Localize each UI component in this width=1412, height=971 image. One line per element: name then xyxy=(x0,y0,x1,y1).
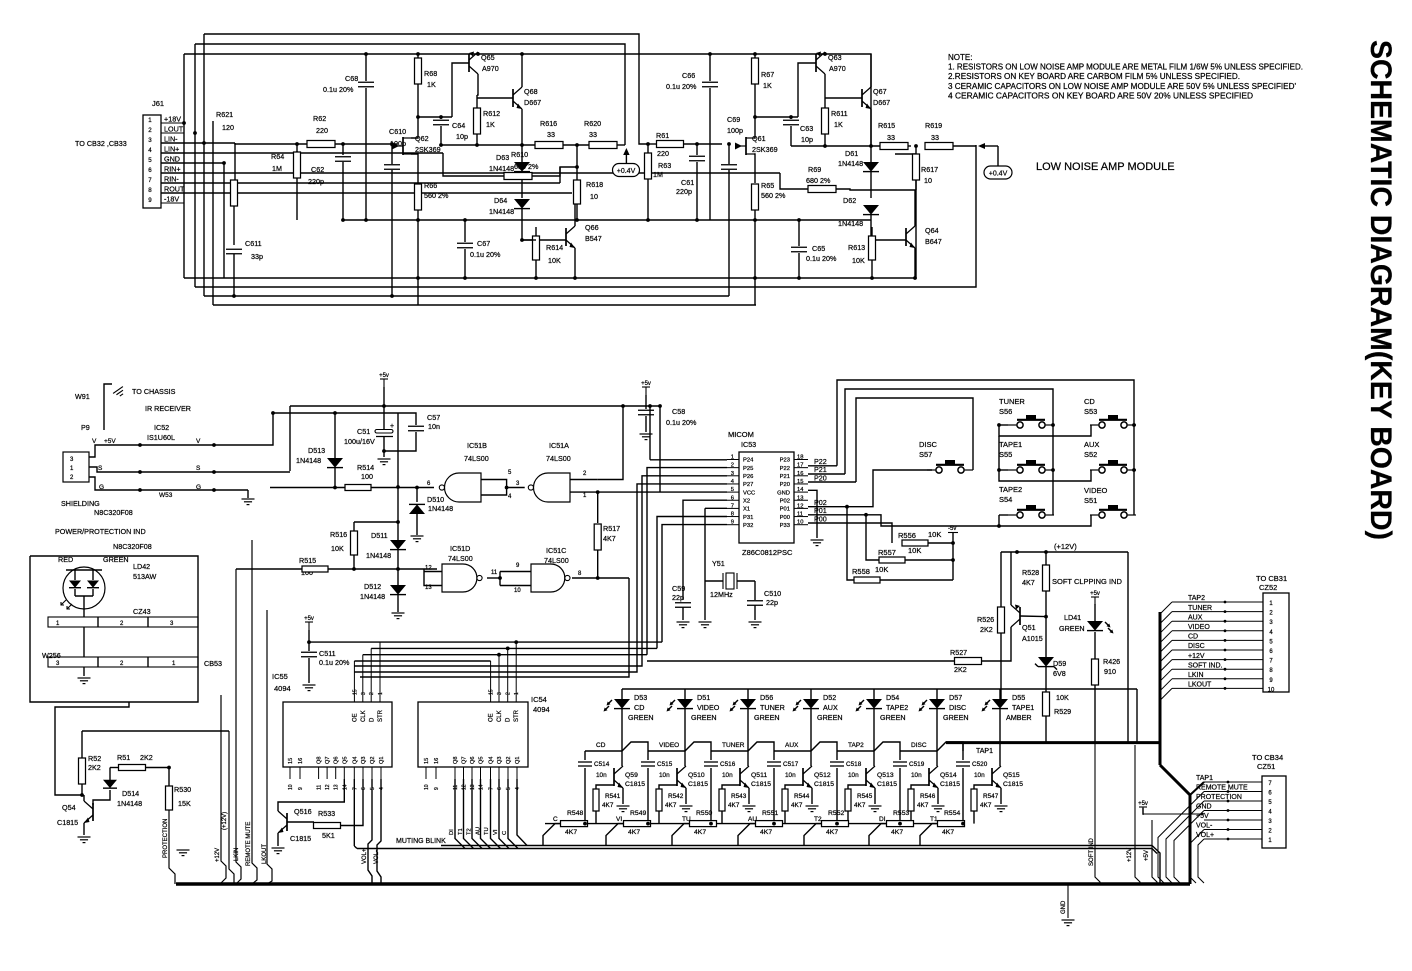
svg-text:10K: 10K xyxy=(548,256,561,265)
svg-text:+5v: +5v xyxy=(1138,801,1148,807)
svg-text:15K: 15K xyxy=(178,799,191,808)
svg-text:AUX: AUX xyxy=(785,742,799,749)
svg-text:VOL+: VOL+ xyxy=(362,848,368,864)
svg-text:1N4148: 1N4148 xyxy=(838,219,863,228)
wire Q510 emitter xyxy=(685,788,687,804)
transistor Q61 2SK369 xyxy=(745,137,747,155)
svg-text:0.1u 20%: 0.1u 20% xyxy=(470,250,501,259)
svg-text:4K7: 4K7 xyxy=(891,829,903,836)
svg-text:OE: OE xyxy=(352,713,358,722)
svg-text:LKIN: LKIN xyxy=(1188,672,1204,679)
wire GND drop xyxy=(223,163,225,278)
svg-text:TAP2: TAP2 xyxy=(1188,595,1205,602)
svg-text:680 2%: 680 2% xyxy=(806,176,831,185)
svg-text:S54: S54 xyxy=(999,495,1012,504)
svg-text:LOUT: LOUT xyxy=(164,125,184,134)
svg-text:+5v: +5v xyxy=(641,381,651,387)
svg-text:A1015: A1015 xyxy=(1022,634,1043,643)
svg-text:4K7: 4K7 xyxy=(728,802,740,809)
svg-text:10K: 10K xyxy=(1056,693,1069,702)
wire +5 row A xyxy=(290,405,660,407)
svg-text:D52: D52 xyxy=(823,693,836,702)
svg-text:P26: P26 xyxy=(743,474,753,480)
svg-text:Q4: Q4 xyxy=(352,757,358,764)
svg-text:C515: C515 xyxy=(657,761,673,768)
svg-text:3: 3 xyxy=(361,692,367,695)
svg-text:TO CB32 ,CB33: TO CB32 ,CB33 xyxy=(75,139,127,148)
svg-text:10K: 10K xyxy=(331,544,344,553)
svg-text:TAP2: TAP2 xyxy=(848,742,864,749)
svg-text:R515: R515 xyxy=(299,556,316,565)
svg-text:220: 220 xyxy=(657,149,669,158)
svg-text:SOFT IND: SOFT IND xyxy=(1089,837,1095,866)
svg-text:REMOTE MUTE: REMOTE MUTE xyxy=(246,822,252,866)
wire +5 col x398 xyxy=(397,413,399,522)
wire muting stubs xyxy=(543,824,561,846)
svg-text:16: 16 xyxy=(298,758,304,764)
wire G xyxy=(89,477,248,490)
ground Q59 xyxy=(617,805,630,807)
svg-text:Q65: Q65 xyxy=(481,53,495,62)
svg-text:10: 10 xyxy=(514,588,521,594)
oval +0.4V left xyxy=(613,164,640,177)
LED D51 GREEN xyxy=(684,689,686,700)
svg-text:33: 33 xyxy=(547,130,555,139)
svg-text:1: 1 xyxy=(148,117,152,124)
svg-text:R62: R62 xyxy=(313,114,326,123)
svg-text:74LS00: 74LS00 xyxy=(546,454,571,463)
wire right gnd subrail xyxy=(343,219,871,221)
connector J61 xyxy=(143,115,161,208)
svg-text:D55: D55 xyxy=(1012,693,1025,702)
wire left vertical 3 xyxy=(203,34,205,296)
svg-text:DISC: DISC xyxy=(911,742,927,749)
svg-text:33: 33 xyxy=(931,133,939,142)
svg-text:DISC: DISC xyxy=(949,703,966,712)
svg-text:Q6: Q6 xyxy=(334,757,340,764)
transistor Q66 B547 xyxy=(565,228,567,246)
ground C51 xyxy=(383,451,385,457)
capacitor C518 10n xyxy=(836,751,838,760)
wire LED D56 cathode xyxy=(747,709,749,766)
svg-text:R547: R547 xyxy=(983,793,999,800)
svg-text:IC51C: IC51C xyxy=(546,546,566,555)
svg-text:0.1u 20%: 0.1u 20% xyxy=(323,85,354,94)
svg-text:9: 9 xyxy=(434,787,440,790)
svg-text:74LS00: 74LS00 xyxy=(448,554,473,563)
svg-text:P33: P33 xyxy=(780,523,790,529)
svg-text:8: 8 xyxy=(148,187,152,194)
wire LED D54 cathode xyxy=(873,709,875,766)
transistor Q515 C1815 xyxy=(991,768,993,786)
svg-text:Q5: Q5 xyxy=(342,757,348,764)
svg-text:P20: P20 xyxy=(780,482,790,488)
wire VCC row xyxy=(598,491,727,493)
svg-text:GREEN: GREEN xyxy=(880,713,906,722)
svg-text:C59: C59 xyxy=(672,584,685,593)
svg-text:C1815: C1815 xyxy=(688,781,708,788)
svg-text:VOL+: VOL+ xyxy=(1196,832,1214,839)
svg-text:W256: W256 xyxy=(42,651,61,660)
wire Q514 emitter xyxy=(937,788,939,804)
svg-text:Q68: Q68 xyxy=(524,87,538,96)
svg-text:(+12V): (+12V) xyxy=(222,812,228,830)
svg-text:R553: R553 xyxy=(893,810,909,817)
wire top frame line 2 xyxy=(195,44,625,145)
svg-text:TAP1: TAP1 xyxy=(1196,775,1213,782)
wire Q65 collector xyxy=(477,74,478,95)
transistor Q67 D667 xyxy=(861,89,863,107)
wire Q62 source xyxy=(411,154,418,183)
svg-text:R545: R545 xyxy=(857,793,873,800)
svg-text:2.RESISTORS ON KEY BOARD ARE C: 2.RESISTORS ON KEY BOARD ARE CARBOM FILM… xyxy=(948,72,1240,81)
svg-text:R554: R554 xyxy=(944,810,960,817)
svg-text:RIN+: RIN+ xyxy=(164,165,181,174)
svg-text:B547: B547 xyxy=(585,234,602,243)
svg-text:11: 11 xyxy=(491,570,498,576)
transistor Q68 D667 xyxy=(512,89,514,107)
wire gnd rail bottom xyxy=(184,154,916,278)
svg-text:TO CB31: TO CB31 xyxy=(1256,574,1287,583)
wire switch loop 2 xyxy=(845,389,1053,515)
svg-text:AUX: AUX xyxy=(1084,440,1099,449)
svg-text:C63: C63 xyxy=(800,124,813,133)
svg-text:10: 10 xyxy=(424,784,430,790)
svg-text:10n: 10n xyxy=(785,772,796,779)
svg-text:1M: 1M xyxy=(272,164,282,173)
svg-text:+18V: +18V xyxy=(164,115,181,124)
svg-text:D51: D51 xyxy=(697,693,710,702)
svg-text:VIDEO: VIDEO xyxy=(1188,624,1210,631)
svg-text:5K1: 5K1 xyxy=(322,831,335,840)
svg-text:T2: T2 xyxy=(467,828,473,835)
svg-text:R620: R620 xyxy=(584,119,601,128)
svg-text:IC53: IC53 xyxy=(741,440,756,449)
svg-text:2: 2 xyxy=(148,127,152,134)
svg-text:2K2: 2K2 xyxy=(980,625,993,634)
transistor Q62 2SK369 xyxy=(402,137,404,155)
wire P24 row xyxy=(650,459,727,461)
svg-text:IC52: IC52 xyxy=(154,423,169,432)
wire +V rail xyxy=(184,54,871,146)
svg-text:+5v: +5v xyxy=(1090,591,1100,597)
resistor R546 4K7 xyxy=(908,789,914,811)
transistor Q51 A1015 xyxy=(1019,607,1021,625)
svg-text:(+12V): (+12V) xyxy=(1054,542,1077,551)
svg-text:D61: D61 xyxy=(845,149,858,158)
svg-text:C1815: C1815 xyxy=(751,781,771,788)
svg-text:13: 13 xyxy=(470,784,476,790)
svg-text:11: 11 xyxy=(453,785,459,790)
wire Q51 collector xyxy=(982,627,1011,661)
svg-text:P24: P24 xyxy=(743,458,754,464)
svg-text:CD: CD xyxy=(634,703,644,712)
svg-text:4K7: 4K7 xyxy=(1022,578,1035,587)
svg-text:R612: R612 xyxy=(483,109,500,118)
svg-text:R548: R548 xyxy=(567,810,583,817)
svg-text:10: 10 xyxy=(924,176,932,185)
svg-text:Q51: Q51 xyxy=(1022,623,1036,632)
svg-text:10K: 10K xyxy=(908,546,921,555)
svg-text:Q67: Q67 xyxy=(873,87,887,96)
capacitor C520 10n xyxy=(962,743,964,760)
svg-text:5: 5 xyxy=(506,787,512,790)
svg-text:910: 910 xyxy=(1104,667,1116,676)
svg-text:Y51: Y51 xyxy=(712,559,725,568)
svg-text:680 2%: 680 2% xyxy=(514,162,539,171)
svg-text:4094: 4094 xyxy=(274,684,291,693)
ground D510 xyxy=(411,535,424,537)
LED rail xyxy=(622,688,1137,690)
svg-text:R67: R67 xyxy=(761,70,774,79)
svg-text:TAPE2: TAPE2 xyxy=(999,485,1022,494)
wire C out xyxy=(572,577,629,579)
svg-text:AUX: AUX xyxy=(1188,614,1203,621)
svg-text:S: S xyxy=(196,465,201,472)
wire Q67 collector xyxy=(870,54,872,87)
svg-text:C67: C67 xyxy=(477,239,490,248)
svg-text:C511: C511 xyxy=(319,649,336,658)
svg-text:SHIELDING: SHIELDING xyxy=(61,499,100,508)
transistor Q514 C1815 xyxy=(928,768,930,786)
svg-text:CD: CD xyxy=(1188,634,1198,641)
wire +12V col xyxy=(229,731,234,884)
wire left col D55 xyxy=(1000,552,1002,607)
svg-text:C520: C520 xyxy=(972,761,988,768)
svg-text:D512: D512 xyxy=(364,582,381,591)
svg-text:T1: T1 xyxy=(458,828,464,835)
wire drain node to C64 xyxy=(418,116,452,118)
svg-text:R610: R610 xyxy=(511,150,528,159)
svg-text:IC51A: IC51A xyxy=(549,441,569,450)
capacitor C514 10n xyxy=(584,751,586,760)
svg-text:2K2: 2K2 xyxy=(140,753,153,762)
svg-text:+12V: +12V xyxy=(1127,848,1133,862)
svg-text:S57: S57 xyxy=(919,450,932,459)
wire Q54 emitter xyxy=(83,823,85,835)
wire Q68 collector xyxy=(521,54,523,87)
wire Q66 collector xyxy=(574,190,576,226)
svg-text:4: 4 xyxy=(379,787,385,790)
wire Q65 base xyxy=(452,63,469,117)
svg-text:D54: D54 xyxy=(886,693,899,702)
svg-text:TO CB34: TO CB34 xyxy=(1252,753,1283,762)
svg-text:R543: R543 xyxy=(731,793,747,800)
svg-text:10p: 10p xyxy=(801,135,813,144)
svg-text:C1815: C1815 xyxy=(625,781,645,788)
ground C511 xyxy=(303,684,316,686)
ground Q511 xyxy=(743,805,756,807)
+0.4V arrow left xyxy=(625,153,627,163)
svg-text:S51: S51 xyxy=(1084,496,1097,505)
svg-text:10n: 10n xyxy=(659,772,670,779)
svg-text:P9: P9 xyxy=(81,423,90,432)
ground micom xyxy=(808,490,817,538)
svg-text:GREEN: GREEN xyxy=(817,713,843,722)
wire IC55 q3 muting xyxy=(353,779,355,846)
svg-text:D63: D63 xyxy=(496,153,509,162)
svg-text:10K: 10K xyxy=(852,256,865,265)
svg-text:P32: P32 xyxy=(743,523,753,529)
svg-text:Q6: Q6 xyxy=(470,757,476,764)
resistor R542 4K7 xyxy=(656,789,662,811)
wire Q61 drain xyxy=(754,117,755,138)
LED D53 GREEN xyxy=(621,689,623,700)
svg-text:P01: P01 xyxy=(780,507,790,513)
svg-text:-18V: -18V xyxy=(164,195,179,204)
svg-text:PROTECTION: PROTECTION xyxy=(163,819,169,858)
svg-text:A970: A970 xyxy=(829,64,846,73)
svg-text:IC55: IC55 xyxy=(272,672,288,681)
svg-text:3 CERAMIC CAPACITORS ON LOW NO: 3 CERAMIC CAPACITORS ON LOW NOISE AMP MO… xyxy=(948,82,1296,91)
svg-text:P00: P00 xyxy=(814,514,827,523)
svg-text:4: 4 xyxy=(148,147,152,154)
wire row3 jog xyxy=(999,515,1091,526)
svg-text:S53: S53 xyxy=(1084,407,1097,416)
wire D out to C in xyxy=(487,577,500,579)
svg-text:S55: S55 xyxy=(999,450,1012,459)
svg-text:Q64: Q64 xyxy=(925,226,939,235)
svg-text:12: 12 xyxy=(425,566,432,572)
svg-text:R621: R621 xyxy=(216,110,233,119)
wire X1 to crystal xyxy=(705,507,727,509)
svg-text:14: 14 xyxy=(479,784,485,790)
svg-text:Q513: Q513 xyxy=(877,772,894,779)
ground Q516 xyxy=(272,847,285,849)
svg-text:IC51D: IC51D xyxy=(450,544,470,553)
wire R548 row xyxy=(545,823,938,825)
wire LED D57 cathode xyxy=(936,709,938,766)
wire output row left xyxy=(441,144,535,146)
svg-text:R556: R556 xyxy=(898,531,916,540)
svg-text:Q7: Q7 xyxy=(325,757,331,764)
svg-text:OE: OE xyxy=(489,713,495,722)
svg-text:1N4148: 1N4148 xyxy=(360,592,385,601)
LED D57 GREEN xyxy=(936,689,938,700)
svg-text:GND: GND xyxy=(777,490,790,496)
svg-text:10n: 10n xyxy=(911,772,922,779)
svg-text:1K: 1K xyxy=(763,81,772,90)
wire Q59 emitter xyxy=(622,788,624,804)
capacitor C517 10n xyxy=(773,751,775,760)
svg-text:1K: 1K xyxy=(427,80,436,89)
resistor R545 4K7 xyxy=(845,789,851,811)
svg-text:D667: D667 xyxy=(524,98,541,107)
svg-text:VOL-: VOL- xyxy=(374,850,380,864)
svg-text:7: 7 xyxy=(148,177,152,184)
svg-text:C62: C62 xyxy=(311,165,324,174)
wire P31 P32 xyxy=(657,517,727,649)
capacitor C515 10n xyxy=(647,751,649,760)
svg-text:R544: R544 xyxy=(794,793,810,800)
svg-text:4K7: 4K7 xyxy=(665,802,677,809)
svg-text:P20: P20 xyxy=(814,473,827,482)
wire top frame line 1 xyxy=(204,34,648,144)
svg-text:C610: C610 xyxy=(389,127,406,136)
wire V xyxy=(89,413,273,457)
svg-text:R541: R541 xyxy=(605,793,621,800)
svg-text:C516: C516 xyxy=(720,761,736,768)
svg-text:2K2: 2K2 xyxy=(88,763,101,772)
svg-text:V: V xyxy=(196,438,201,445)
wire left vertical 1 xyxy=(183,54,185,278)
svg-text:GND: GND xyxy=(164,155,180,164)
svg-text:NOTE:: NOTE: xyxy=(948,53,972,62)
wire C-out to band xyxy=(360,578,629,677)
svg-text:C51: C51 xyxy=(357,427,370,436)
svg-text:R52: R52 xyxy=(88,754,101,763)
svg-text:P25: P25 xyxy=(743,466,753,472)
svg-text:+12V: +12V xyxy=(1188,653,1205,660)
svg-text:C514: C514 xyxy=(594,761,610,768)
wire IC54 output bundle xyxy=(455,779,465,849)
svg-text:9: 9 xyxy=(298,787,304,790)
svg-text:33: 33 xyxy=(887,133,895,142)
wire +5 to VCC riser xyxy=(659,406,661,492)
wire Q512 emitter xyxy=(811,788,813,804)
LED D55 AMBER xyxy=(999,689,1001,700)
ground LED xyxy=(78,677,91,679)
svg-text:1N4148: 1N4148 xyxy=(489,164,514,173)
svg-text:2: 2 xyxy=(369,692,375,695)
svg-text:10p: 10p xyxy=(456,132,468,141)
svg-text:VI: VI xyxy=(616,816,622,823)
ground mid xyxy=(182,847,184,849)
svg-text:GND: GND xyxy=(1196,804,1212,811)
svg-text:R63: R63 xyxy=(658,161,671,170)
svg-text:Q59: Q59 xyxy=(625,772,638,779)
svg-text:10K: 10K xyxy=(928,530,941,539)
connector CB53 xyxy=(48,657,198,667)
svg-text:X1: X1 xyxy=(743,507,750,513)
wire left vertical 2 xyxy=(194,44,196,287)
svg-text:Q5: Q5 xyxy=(479,757,485,764)
svg-text:16: 16 xyxy=(434,758,440,764)
svg-text:10n: 10n xyxy=(974,772,985,779)
svg-text:P00: P00 xyxy=(780,515,790,521)
svg-text:22p: 22p xyxy=(672,593,684,602)
svg-text:6V8: 6V8 xyxy=(1053,669,1066,678)
svg-text:P23: P23 xyxy=(780,458,790,464)
svg-text:1M: 1M xyxy=(653,170,663,179)
wire switch loop 3 xyxy=(856,398,973,482)
svg-text:+12V: +12V xyxy=(215,848,221,862)
svg-text:D: D xyxy=(506,717,512,722)
svg-text:2SK369: 2SK369 xyxy=(415,145,441,154)
svg-text:4K7: 4K7 xyxy=(603,534,616,543)
svg-text:4K7: 4K7 xyxy=(565,829,577,836)
svg-text:D514: D514 xyxy=(122,789,139,798)
svg-text:W91: W91 xyxy=(75,392,90,401)
svg-text:TUNER: TUNER xyxy=(760,703,785,712)
wire J61 pin rows xyxy=(183,122,185,124)
svg-text:560 2%: 560 2% xyxy=(424,191,449,200)
svg-text:D64: D64 xyxy=(494,196,507,205)
ground Q512 xyxy=(806,805,819,807)
svg-text:CB53: CB53 xyxy=(204,659,222,668)
svg-text:IC54: IC54 xyxy=(531,695,547,704)
svg-text:3: 3 xyxy=(148,137,152,144)
svg-text:R557: R557 xyxy=(878,548,896,557)
svg-text:TO CHASSIS: TO CHASSIS xyxy=(132,387,176,396)
svg-text:R528: R528 xyxy=(1022,568,1039,577)
wire RIN- link xyxy=(559,167,561,183)
svg-text:14: 14 xyxy=(342,784,348,790)
svg-text:4K7: 4K7 xyxy=(628,829,640,836)
svg-text:C: C xyxy=(553,816,558,823)
svg-text:CD: CD xyxy=(596,742,606,749)
svg-text:1N4148: 1N4148 xyxy=(117,799,142,808)
